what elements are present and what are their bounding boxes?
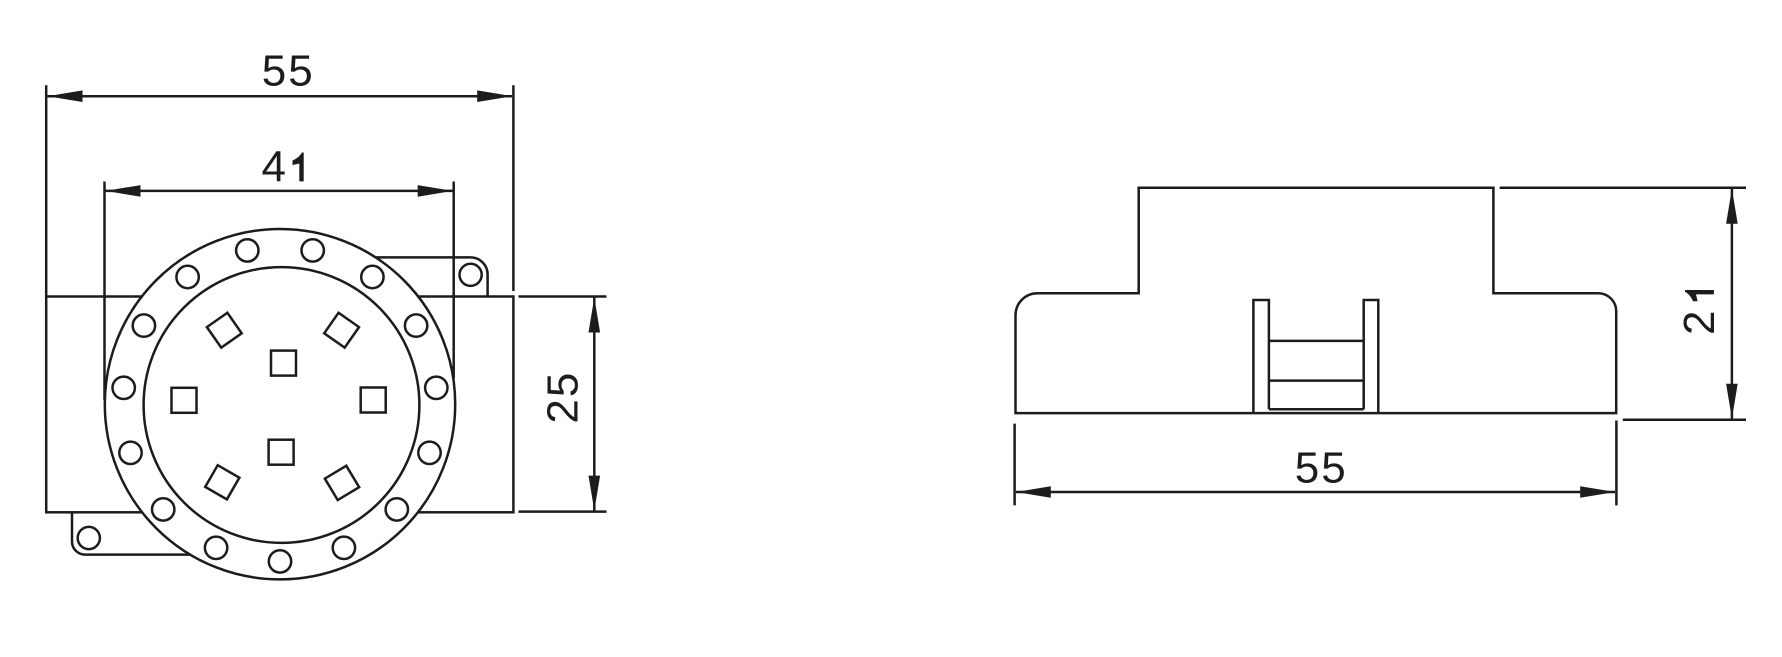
svg-text:25: 25 <box>538 371 587 424</box>
svg-text:55: 55 <box>1295 443 1348 492</box>
flange hole H15 <box>236 239 258 261</box>
arrowhead right (55 side) <box>1580 486 1615 498</box>
pin slot center-bottom <box>269 440 294 465</box>
flange hole H2 <box>361 266 383 288</box>
pin slot top-right <box>324 313 359 348</box>
pin slots (squares) <box>172 313 386 500</box>
flange hole H6 <box>386 498 408 520</box>
svg-text:4: 4 <box>262 143 286 192</box>
flange hole H14 <box>176 266 198 288</box>
extension line bottom (25) <box>519 510 607 513</box>
arrowhead left (55 side) <box>1016 486 1051 498</box>
dimension line 25 <box>593 298 596 511</box>
extension line left (55, side view) <box>1013 424 1016 506</box>
arrowhead top (25) <box>589 298 601 333</box>
side profile outline <box>1016 188 1617 413</box>
pin slot left <box>172 388 197 413</box>
pin slot top-left <box>207 313 242 348</box>
pin slot center-top <box>271 351 296 376</box>
mounting tab top-right <box>372 257 488 296</box>
tab hole top-right <box>460 264 482 286</box>
pin slot bottom-left <box>205 465 239 499</box>
dimension text 41 <box>262 143 304 192</box>
flange hole H1 <box>302 239 324 261</box>
dimension line 55 (front view) <box>48 95 513 98</box>
flange hole H13 <box>133 314 155 336</box>
flange hole H12 <box>113 377 135 399</box>
extension line left (41) <box>103 182 106 401</box>
extension line bottom (21) <box>1623 418 1746 421</box>
arrowhead bottom (21) <box>1726 384 1738 419</box>
mounting tab bottom-left <box>72 511 198 555</box>
svg-text:2: 2 <box>1675 310 1724 334</box>
dim 21 (right view) <box>1500 188 1746 420</box>
arrowhead left (55 front) <box>48 90 83 102</box>
pin slot bottom-right <box>325 466 359 500</box>
dim 25 (left view, right side) <box>519 297 607 512</box>
flange holes (15 on bolt-circle) <box>113 239 448 572</box>
arrowhead left (41) <box>106 185 141 197</box>
DIN clip: right post <box>1364 300 1379 413</box>
extension line right (55, front view) <box>512 85 515 291</box>
dim 55 (left view, top) <box>46 85 513 296</box>
flange hole H4 <box>425 377 447 399</box>
svg-text:55: 55 <box>262 46 315 95</box>
dimension text 21 (rotated) <box>1675 290 1724 335</box>
extension line right (41) <box>452 182 455 379</box>
extension line top (21) <box>1500 186 1746 189</box>
flange hole H8 <box>269 550 291 572</box>
flange hole H9 <box>205 537 227 559</box>
dim 55 (right view, bottom) <box>1015 421 1617 506</box>
DIN clip rung lower <box>1269 379 1364 382</box>
arrowhead right (41) <box>418 185 453 197</box>
pin slot right <box>361 388 386 413</box>
flange outer circle <box>105 229 455 579</box>
dimension line 21 <box>1731 189 1734 419</box>
DIN clip rung upper <box>1269 340 1364 343</box>
dimension line 41 <box>106 190 453 193</box>
arrowhead top (21) <box>1726 189 1738 224</box>
tab hole bottom-left <box>78 527 100 549</box>
DIN clip channel bottom <box>1269 408 1364 411</box>
arrowhead bottom (25) <box>589 476 601 511</box>
flange hole H10 <box>152 498 174 520</box>
flange hole H3 <box>405 314 427 336</box>
flange hole H11 <box>119 442 141 464</box>
dim 41 <box>105 182 454 401</box>
extension line left (55, front view) <box>45 85 48 296</box>
DIN clip: left post <box>1253 300 1269 413</box>
extension line right (55, side view) <box>1615 421 1618 506</box>
extension line top (25) <box>519 295 607 298</box>
flange hole H5 <box>418 442 440 464</box>
flange inner circle <box>144 267 420 543</box>
arrowhead right (55 front) <box>477 90 512 102</box>
dimension line 55 (side view) <box>1016 491 1615 494</box>
socket body rectangle <box>46 297 513 513</box>
flange hole H7 <box>333 537 355 559</box>
